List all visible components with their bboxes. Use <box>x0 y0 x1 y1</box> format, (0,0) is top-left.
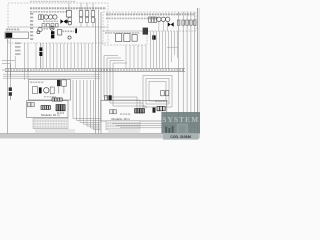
svg-text:COD. 310936: COD. 310936 <box>170 135 191 139</box>
svg-text:SYSTEM: SYSTEM <box>162 115 199 124</box>
svg-text:Modello 10 m: Modello 10 m <box>41 113 60 117</box>
